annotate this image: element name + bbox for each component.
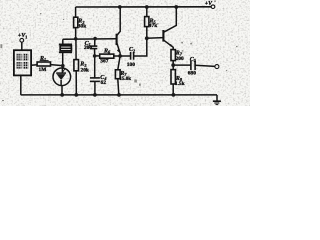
svg-text:200: 200: [176, 56, 184, 62]
svg-text:30k: 30k: [78, 23, 86, 29]
svg-text:R6: R6: [103, 48, 111, 54]
svg-text:R1: R1: [39, 56, 46, 62]
svg-text:680: 680: [188, 71, 196, 77]
svg-text:+V1: +V1: [18, 33, 27, 39]
svg-text:C5: C5: [190, 57, 196, 63]
svg-text:15.0k: 15.0k: [120, 77, 132, 82]
svg-text:+V: +V: [205, 1, 213, 7]
svg-text:1M: 1M: [39, 67, 47, 73]
svg-text:367: 367: [100, 58, 108, 64]
svg-text:C2: C2: [129, 47, 135, 53]
svg-text:200: 200: [84, 45, 92, 51]
svg-text:62: 62: [101, 80, 107, 86]
svg-text:47k: 47k: [149, 23, 157, 29]
svg-text:1.5k: 1.5k: [175, 81, 185, 87]
svg-text:20k: 20k: [81, 68, 89, 74]
svg-text:100: 100: [127, 62, 135, 68]
